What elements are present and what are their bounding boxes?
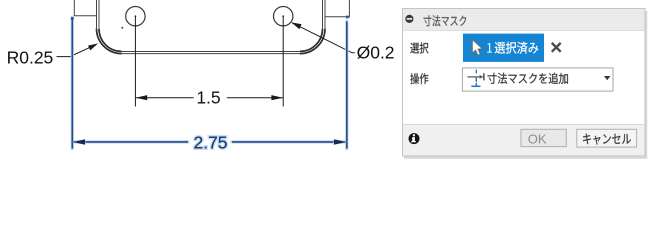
cancel text キャンセル (583, 134, 631, 145)
chip text 1 選択済み (487, 43, 492, 53)
operation dropdown box (462, 68, 613, 91)
O0.2 leader line (292, 23, 355, 53)
footer background (403, 125, 645, 156)
dialog title bar (403, 9, 645, 30)
R0.25 leader arrowhead (88, 43, 98, 50)
dropdown text 寸法マスクを追加 (488, 73, 568, 84)
svg-text:OK: OK (528, 131, 547, 146)
2.75 ext line left grip (71, 17, 74, 20)
dropdown caret (604, 76, 610, 80)
label 操作 (410, 73, 428, 84)
svg-text:1.5: 1.5 (196, 87, 220, 107)
OK button (521, 129, 566, 146)
2.75 halo ext left (71, 17, 74, 148)
O0.2 leader arrowhead (291, 22, 302, 29)
1.5 dim line left segment (135, 97, 193, 99)
selection chip (blue) (463, 34, 544, 62)
2.75 arrow right (334, 139, 347, 144)
1.5 dim arrow right (271, 95, 283, 100)
part right step horizontal edge (325, 16, 350, 18)
left fillet center mark (121, 27, 123, 29)
Cancel button (577, 129, 637, 147)
part bottom horizontal edge (upper line) (122, 50, 301, 52)
fillet arc bottom-right (outer) (300, 29, 325, 54)
hole circle right (274, 7, 293, 26)
2.75 dim line left segment (72, 141, 188, 143)
1.5 dim extension line left (from left hole center) (134, 16, 136, 106)
part outer-left vertical edge (73, 0, 75, 16)
part inner-right wall edge (inner line) (322, 0, 324, 29)
info icon (409, 133, 420, 144)
svg-text:2.75: 2.75 (193, 132, 227, 152)
1.5 dim arrow left (136, 95, 148, 100)
R0.25 leader line (57, 45, 96, 57)
left hole center mark (135, 15, 137, 17)
part inner-left wall edge (inner line) (98, 0, 100, 29)
fillet arc bottom-left (outer) (97, 29, 122, 54)
label 選択 (410, 42, 428, 53)
2.75 ext line left (71, 17, 73, 148)
title text 寸法マスク (424, 15, 467, 26)
dialog drop shadow (404, 11, 646, 158)
right fillet center mark (298, 27, 300, 29)
footer top separator (403, 124, 645, 126)
right hole center mark (282, 15, 284, 17)
dialog panel body (403, 9, 646, 157)
hole circle left (126, 7, 145, 26)
2.75 ext line right (346, 21, 348, 148)
1.5 dim line right segment (227, 97, 283, 99)
part inner-right wall edge (outer line) (324, 0, 326, 29)
dropdown icon: add dimension mask (468, 70, 484, 87)
2.75 halo ext right (345, 21, 348, 148)
fillet arc bottom-left (inner) (99, 29, 122, 52)
part inner-left wall edge (outer line) (96, 0, 98, 29)
cursor icon in chip (472, 40, 482, 56)
part bottom horizontal edge (lower line) (122, 53, 301, 55)
title bar bottom edge (403, 30, 645, 32)
clear selection X (552, 43, 561, 52)
part outer-right vertical edge (348, 0, 350, 17)
fillet arc bottom-right (inner) (300, 29, 323, 52)
part left step horizontal edge (74, 15, 97, 17)
2.75 arrow left (73, 139, 85, 144)
1.5 dim extension line right (from right hole center) (282, 16, 284, 106)
title collapse icon (minus in dark circle) (405, 15, 413, 23)
2.75 ext line right grip (346, 16, 349, 19)
2.75 halo dim line (72, 140, 347, 143)
svg-text:R0.25: R0.25 (7, 48, 54, 68)
2.75 dimension (selected, blue halo) (72, 17, 347, 148)
svg-text:Ø0.2: Ø0.2 (357, 43, 395, 63)
2.75 dim line right segment (232, 141, 347, 143)
